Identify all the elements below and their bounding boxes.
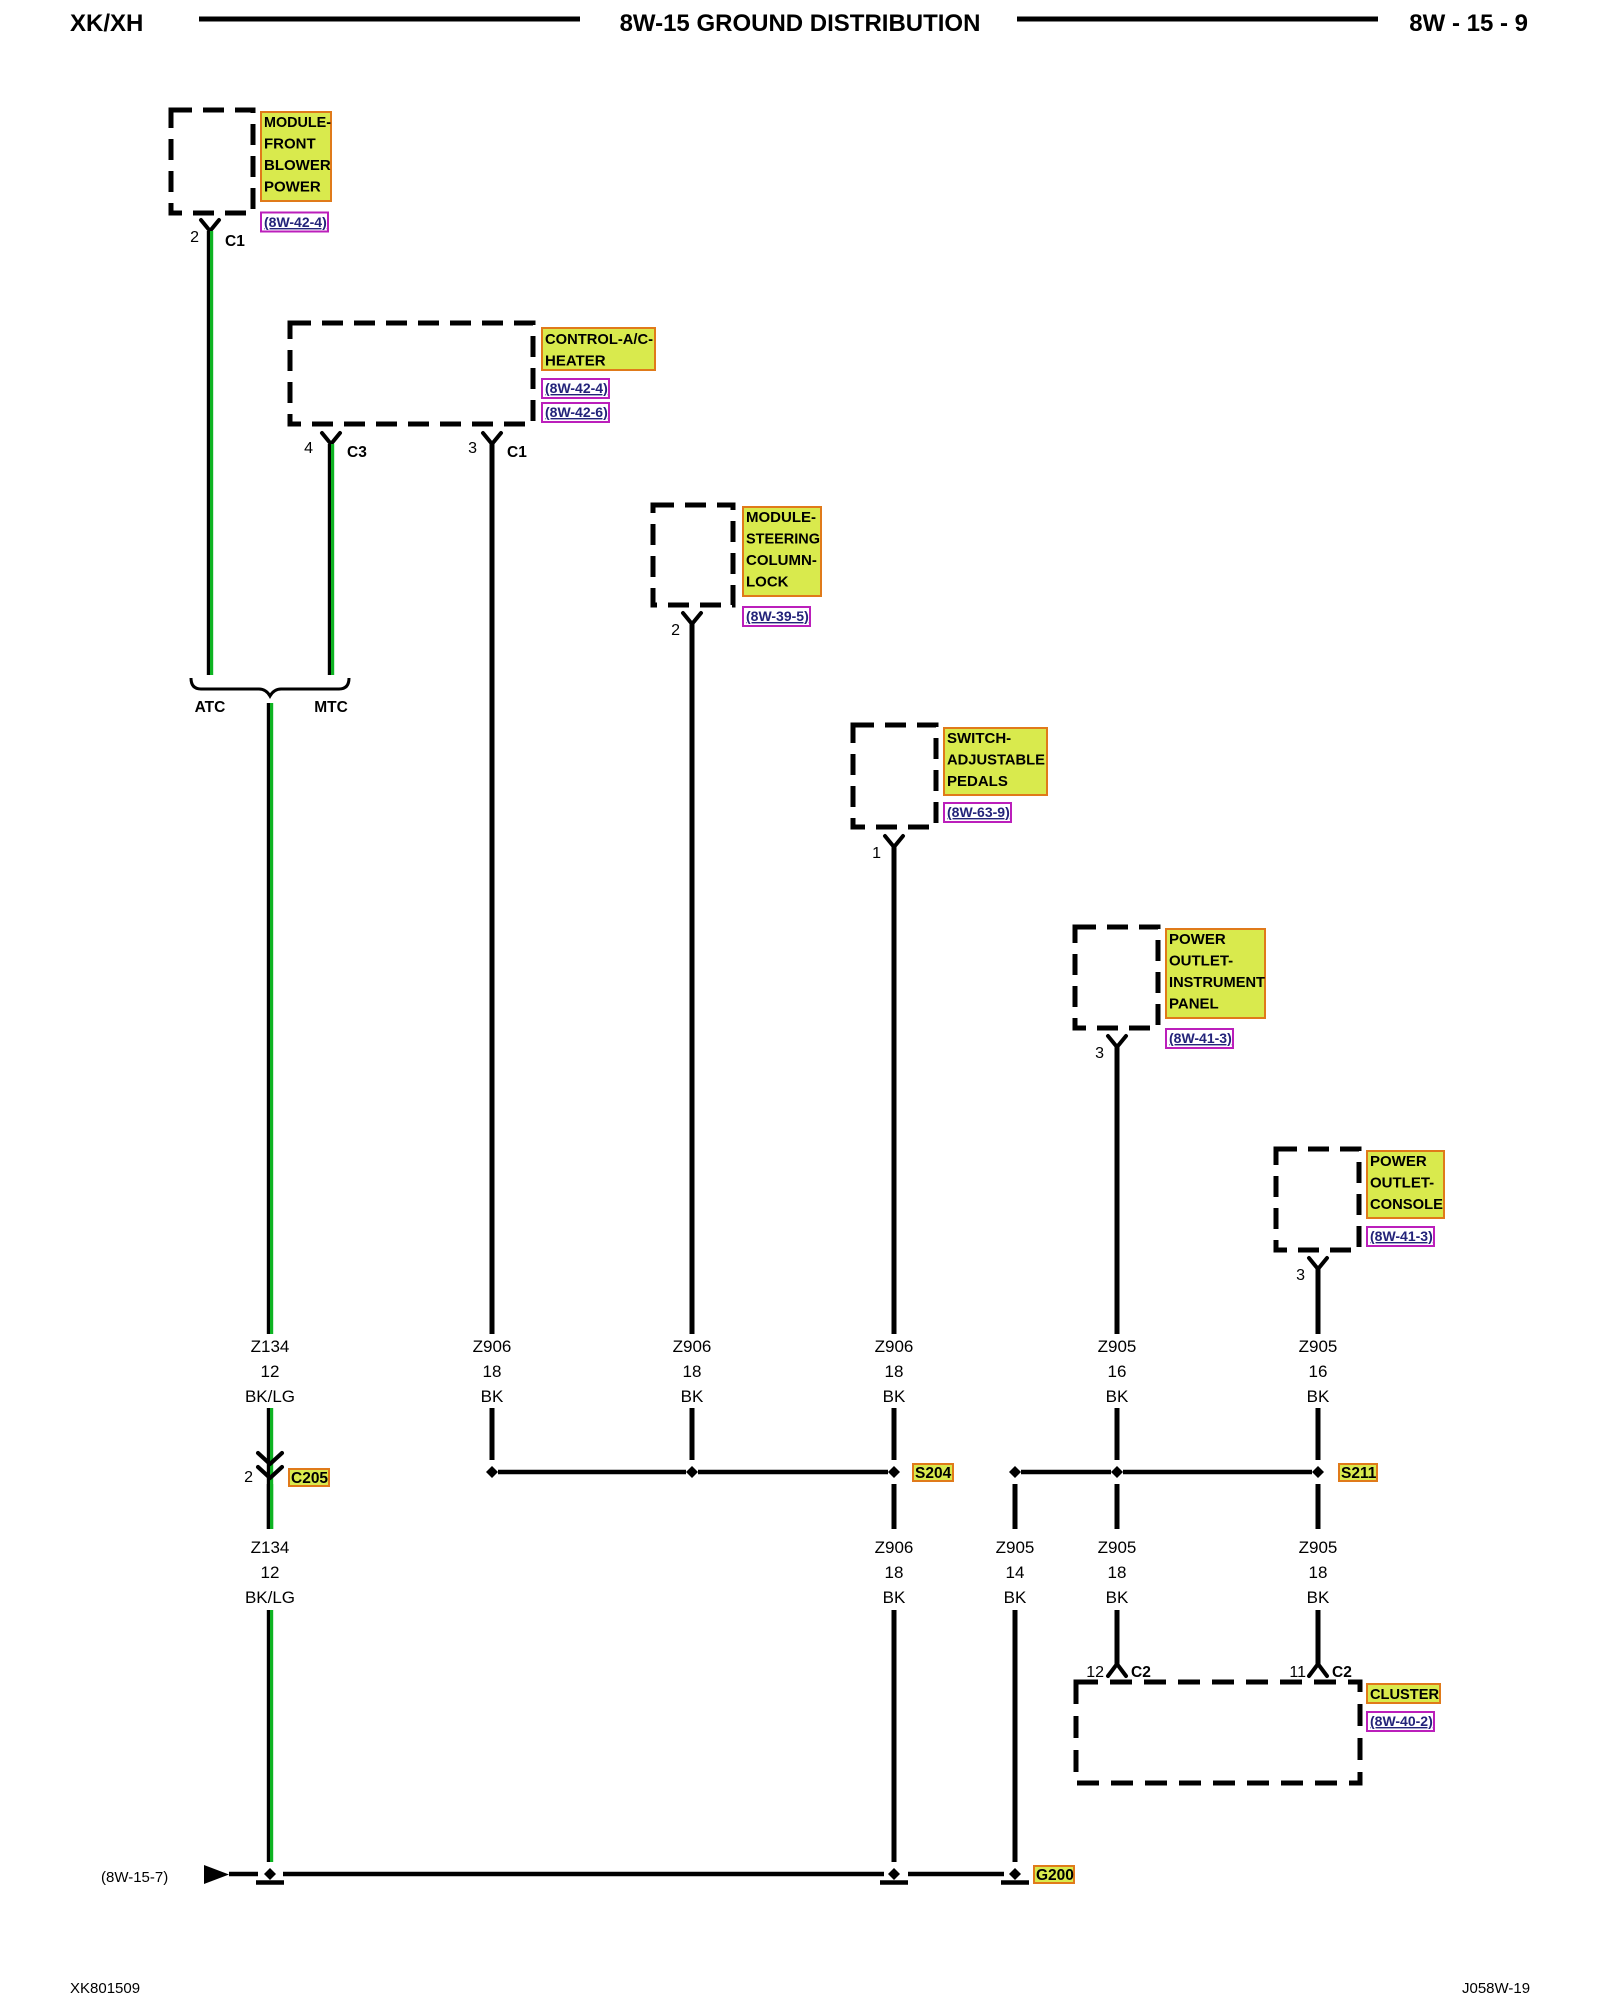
connector pin 3 fork <box>1095 1036 1126 1062</box>
svg-text:CLUSTER: CLUSTER <box>1370 1686 1439 1703</box>
wire label Z905 16 BK col5 upper <box>1098 1337 1137 1406</box>
svg-text:S204: S204 <box>915 1465 952 1482</box>
svg-text:BK: BK <box>883 1387 906 1406</box>
switch S1 SWITCH-ADJUSTABLE PEDALS box <box>853 725 936 827</box>
ground junction node 3 <box>1001 1868 1029 1883</box>
wire col6 to splice <box>1316 1408 1321 1460</box>
svg-text:S211: S211 <box>1341 1465 1377 1482</box>
connector pin 2 fork <box>671 613 701 639</box>
wire label Z905 14 BK lower <box>996 1538 1035 1607</box>
svg-text:MODULE-: MODULE- <box>264 114 331 131</box>
svg-text:2: 2 <box>671 622 680 639</box>
wire label Z134 12 BK/LG lower <box>245 1538 295 1607</box>
label MODULE-STEERING COLUMN-LOCK <box>743 507 821 596</box>
svg-text:HEATER: HEATER <box>545 353 606 370</box>
wire col6 to C2 <box>1316 1610 1321 1664</box>
svg-text:Z905: Z905 <box>1299 1538 1338 1557</box>
svg-text:4: 4 <box>304 440 313 457</box>
svg-text:(8W-15-7): (8W-15-7) <box>101 1869 168 1886</box>
svg-text:Z134: Z134 <box>251 1538 290 1557</box>
link (8W-42-4) <box>542 379 609 398</box>
svg-text:18: 18 <box>885 1563 904 1582</box>
svg-text:Z905: Z905 <box>996 1538 1035 1557</box>
power outlet P1 POWER OUTLET-INSTRUMENT PANEL box <box>1075 927 1158 1028</box>
header rule left <box>199 17 580 22</box>
svg-text:BK: BK <box>1307 1588 1330 1607</box>
module U1 MODULE-FRONT BLOWER POWER box <box>171 110 253 213</box>
wire BK/LG center to ground <box>268 1610 271 1862</box>
svg-text:(8W-63-9): (8W-63-9) <box>947 804 1010 820</box>
svg-text:INSTRUMENT: INSTRUMENT <box>1169 974 1265 991</box>
svg-text:8W - 15 - 9: 8W - 15 - 9 <box>1409 10 1528 37</box>
svg-text:OUTLET-: OUTLET- <box>1370 1175 1434 1192</box>
svg-text:BK: BK <box>681 1387 704 1406</box>
wire Z134 BK/LG from C1 down <box>208 231 211 675</box>
svg-text:C3: C3 <box>347 444 367 461</box>
svg-text:C2: C2 <box>1332 1664 1352 1681</box>
wire label Z905 18 BK col5 lower <box>1098 1538 1137 1607</box>
svg-text:BK: BK <box>481 1387 504 1406</box>
wire label Z905 16 BK col6 upper <box>1299 1337 1338 1406</box>
svg-text:(8W-39-5): (8W-39-5) <box>746 608 809 624</box>
svg-text:BK: BK <box>1106 1387 1129 1406</box>
svg-text:3: 3 <box>468 440 477 457</box>
svg-text:18: 18 <box>1309 1563 1328 1582</box>
label POWER OUTLET-CONSOLE <box>1367 1151 1444 1218</box>
svg-text:(8W-42-4): (8W-42-4) <box>545 380 608 396</box>
svg-text:C205: C205 <box>291 1470 328 1487</box>
svg-text:BLOWER: BLOWER <box>264 157 331 174</box>
svg-text:(8W-40-2): (8W-40-2) <box>1370 1713 1433 1729</box>
svg-text:16: 16 <box>1309 1362 1328 1381</box>
label CONTROL-A/C-HEATER <box>542 328 655 370</box>
connector C3 pin 4 fork <box>304 433 367 461</box>
wire col5 to splice <box>1115 1408 1120 1460</box>
svg-text:2: 2 <box>190 229 199 246</box>
svg-text:BK: BK <box>1004 1588 1027 1607</box>
link (8W-41-3) <box>1166 1029 1233 1048</box>
svg-text:Z906: Z906 <box>673 1337 712 1356</box>
wire col3 to splice <box>690 1408 695 1460</box>
connector C205 pin 2 double chevron <box>244 1453 329 1487</box>
label POWER OUTLET-INSTRUMENT PANEL <box>1166 929 1265 1018</box>
wire Z905 BK down <box>1316 1269 1321 1334</box>
svg-text:2: 2 <box>244 1469 253 1486</box>
svg-text:FRONT: FRONT <box>264 136 316 153</box>
svg-text:11: 11 <box>1289 1664 1306 1681</box>
svg-text:14: 14 <box>1006 1563 1025 1582</box>
svg-text:3: 3 <box>1296 1267 1305 1284</box>
ground bus G200 <box>229 1872 1004 1877</box>
wire col4 to splice <box>892 1408 897 1460</box>
connector C2 pin 11 fork <box>1289 1664 1351 1681</box>
wire BK/LG center below C205 <box>268 1484 271 1529</box>
connector pin 1 fork <box>872 836 903 862</box>
svg-text:(8W-42-6): (8W-42-6) <box>545 404 608 420</box>
svg-text:ADJUSTABLE: ADJUSTABLE <box>947 752 1045 769</box>
wire Z134 BK/LG from brace down <box>268 703 271 1334</box>
wire col6 below splice <box>1316 1484 1321 1529</box>
svg-text:18: 18 <box>1108 1563 1127 1582</box>
svg-text:POWER: POWER <box>264 179 321 196</box>
svg-text:PANEL: PANEL <box>1169 996 1219 1013</box>
svg-text:BK/LG: BK/LG <box>245 1387 295 1406</box>
wire col5 below splice <box>1115 1484 1120 1529</box>
svg-text:12: 12 <box>261 1563 280 1582</box>
svg-text:Z905: Z905 <box>1098 1337 1137 1356</box>
wire col2 to splice <box>490 1408 495 1460</box>
svg-text:12: 12 <box>261 1362 280 1381</box>
splice S211 bus <box>1009 1464 1377 1482</box>
svg-text:12: 12 <box>1086 1664 1104 1681</box>
svg-text:16: 16 <box>1108 1362 1127 1381</box>
ground junction node 1 <box>256 1868 284 1883</box>
svg-text:BK: BK <box>1307 1387 1330 1406</box>
ground label G200 <box>1034 1866 1074 1884</box>
svg-text:Z134: Z134 <box>251 1337 290 1356</box>
connector C2 pin 12 fork <box>1086 1664 1151 1681</box>
svg-text:(8W-41-3): (8W-41-3) <box>1169 1030 1232 1046</box>
svg-text:G200: G200 <box>1036 1867 1074 1884</box>
wire Z906 BK down <box>690 624 695 1334</box>
svg-text:XK/XH: XK/XH <box>70 10 143 37</box>
svg-text:MODULE-: MODULE- <box>746 509 816 526</box>
svg-text:8W-15 GROUND DISTRIBUTION: 8W-15 GROUND DISTRIBUTION <box>620 10 981 37</box>
label CLUSTER <box>1367 1684 1440 1703</box>
link (8W-41-3) <box>1367 1227 1434 1246</box>
svg-text:C1: C1 <box>225 233 245 250</box>
wire label Z134 12 BK/LG upper <box>245 1337 295 1406</box>
svg-text:COLUMN-: COLUMN- <box>746 552 817 569</box>
label MODULE-FRONT BLOWER POWER <box>261 112 331 201</box>
link (8W-39-5) <box>743 607 810 626</box>
svg-text:18: 18 <box>483 1362 502 1381</box>
connector pin 3 fork <box>1296 1258 1327 1284</box>
svg-text:CONTROL-A/C-: CONTROL-A/C- <box>545 331 653 348</box>
splice S204 bus <box>486 1464 953 1482</box>
ground junction node 2 <box>880 1868 908 1883</box>
svg-text:Z906: Z906 <box>875 1337 914 1356</box>
svg-text:BK: BK <box>883 1588 906 1607</box>
wire label Z906 18 BK col3 upper <box>673 1337 712 1406</box>
wire label Z906 18 BK col2 upper <box>473 1337 512 1406</box>
connector C1 pin 3 fork <box>468 433 527 461</box>
link (8W-63-9) <box>944 803 1011 822</box>
svg-text:MTC: MTC <box>314 699 348 716</box>
svg-text:J058W-19: J058W-19 <box>1462 1980 1530 1997</box>
svg-text:POWER: POWER <box>1370 1153 1427 1170</box>
svg-text:LOCK: LOCK <box>746 574 789 591</box>
svg-text:OUTLET-: OUTLET- <box>1169 953 1233 970</box>
wire Z905 BK down <box>1115 1047 1120 1334</box>
wire col5 to C2 <box>1115 1610 1120 1664</box>
svg-text:SWITCH-: SWITCH- <box>947 730 1011 747</box>
svg-text:(8W-42-4): (8W-42-4) <box>264 214 327 230</box>
module U3 MODULE-STEERING COLUMN-LOCK box <box>653 505 733 605</box>
off-page arrow <box>204 1865 229 1884</box>
power outlet P2 POWER OUTLET-CONSOLE box <box>1276 1149 1359 1250</box>
svg-text:ATC: ATC <box>195 699 226 716</box>
svg-text:(8W-41-3): (8W-41-3) <box>1370 1228 1433 1244</box>
header rule right <box>1017 17 1378 22</box>
brace ATC/MTC merge <box>191 678 349 696</box>
svg-text:POWER: POWER <box>1169 931 1226 948</box>
svg-text:1: 1 <box>872 845 881 862</box>
label SWITCH-ADJUSTABLE PEDALS <box>944 728 1047 795</box>
link (8W-42-6) <box>542 403 609 422</box>
wire col4 to ground <box>892 1610 897 1862</box>
svg-text:BK: BK <box>1106 1588 1129 1607</box>
wire label Z906 18 BK col4 upper <box>875 1337 914 1406</box>
svg-text:C1: C1 <box>507 444 527 461</box>
wire col Z905-14 below splice <box>1013 1484 1018 1529</box>
wire BK/LG from C3 down <box>329 444 332 675</box>
wire col4 below splice <box>892 1484 897 1529</box>
wire label Z905 18 BK col6 lower <box>1299 1538 1338 1607</box>
link (8W-40-2) <box>1367 1712 1434 1731</box>
svg-text:Z906: Z906 <box>875 1538 914 1557</box>
link (8W-42-4) <box>261 213 328 232</box>
svg-text:CONSOLE: CONSOLE <box>1370 1196 1443 1213</box>
svg-text:PEDALS: PEDALS <box>947 773 1008 790</box>
wire Z906 BK down <box>892 847 897 1334</box>
wire Z905-14 to ground <box>1013 1610 1018 1862</box>
svg-text:18: 18 <box>683 1362 702 1381</box>
connector C1 pin 2 fork <box>190 220 245 250</box>
svg-text:C2: C2 <box>1131 1664 1151 1681</box>
wire Z906 BK from C1 down <box>490 444 495 1334</box>
svg-text:Z905: Z905 <box>1098 1538 1137 1557</box>
svg-text:3: 3 <box>1095 1045 1104 1062</box>
svg-text:Z905: Z905 <box>1299 1337 1338 1356</box>
svg-text:18: 18 <box>885 1362 904 1381</box>
svg-text:XK801509: XK801509 <box>70 1980 140 1997</box>
svg-text:STEERING: STEERING <box>746 531 820 548</box>
svg-text:Z906: Z906 <box>473 1337 512 1356</box>
module U2 CONTROL-A/C-HEATER box <box>290 323 533 424</box>
wire label Z906 18 BK col4 lower <box>875 1538 914 1607</box>
svg-text:BK/LG: BK/LG <box>245 1588 295 1607</box>
module U4 CLUSTER box <box>1076 1682 1360 1783</box>
wire BK/LG center through C205 <box>268 1408 271 1529</box>
